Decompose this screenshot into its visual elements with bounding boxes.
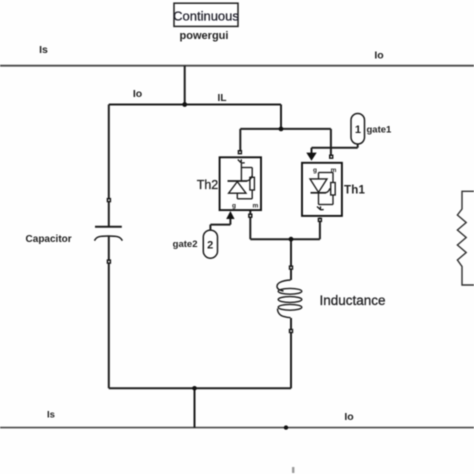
svg-text:IL: IL: [218, 93, 227, 104]
svg-text:Inductance: Inductance: [320, 293, 386, 308]
svg-text:Capacitor: Capacitor: [26, 234, 72, 245]
svg-text:gate1: gate1: [367, 124, 393, 135]
svg-text:m: m: [331, 167, 337, 174]
svg-text:m: m: [253, 203, 259, 210]
svg-text:Continuous: Continuous: [173, 8, 239, 23]
svg-text:2: 2: [207, 240, 213, 252]
svg-text:Th1: Th1: [344, 185, 365, 197]
svg-text:Is: Is: [39, 44, 48, 56]
svg-text:Is: Is: [47, 410, 55, 421]
svg-text:1: 1: [355, 124, 361, 136]
svg-text:powergui: powergui: [180, 30, 229, 42]
svg-text:Th2: Th2: [197, 178, 219, 192]
svg-text:Io: Io: [374, 49, 383, 61]
svg-text:g: g: [232, 203, 236, 210]
svg-text:g: g: [313, 167, 317, 174]
svg-text:Io: Io: [344, 411, 353, 423]
svg-text:gate2: gate2: [173, 239, 198, 250]
svg-text:Io: Io: [133, 88, 142, 100]
